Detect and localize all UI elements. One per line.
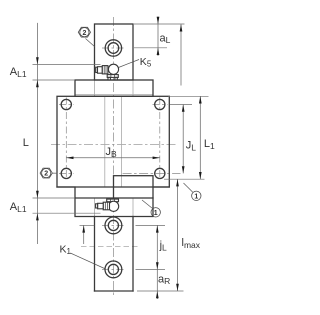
svg-text:AL1: AL1 — [10, 201, 27, 214]
svg-text:jL: jL — [159, 240, 167, 253]
svg-text:JL: JL — [186, 140, 197, 153]
svg-text:L: L — [23, 137, 29, 149]
svg-text:lmax: lmax — [182, 237, 201, 250]
svg-text:K5: K5 — [140, 56, 152, 69]
svg-text:aR: aR — [158, 273, 170, 286]
svg-text:L1: L1 — [204, 138, 215, 151]
svg-text:JB: JB — [106, 146, 118, 159]
svg-text:K1: K1 — [60, 243, 72, 256]
svg-text:aL: aL — [160, 32, 171, 45]
svg-text:1: 1 — [194, 193, 198, 200]
svg-text:2: 2 — [82, 30, 86, 37]
svg-text:AL1: AL1 — [10, 66, 27, 79]
svg-text:2: 2 — [44, 171, 48, 178]
svg-text:1: 1 — [154, 210, 158, 217]
